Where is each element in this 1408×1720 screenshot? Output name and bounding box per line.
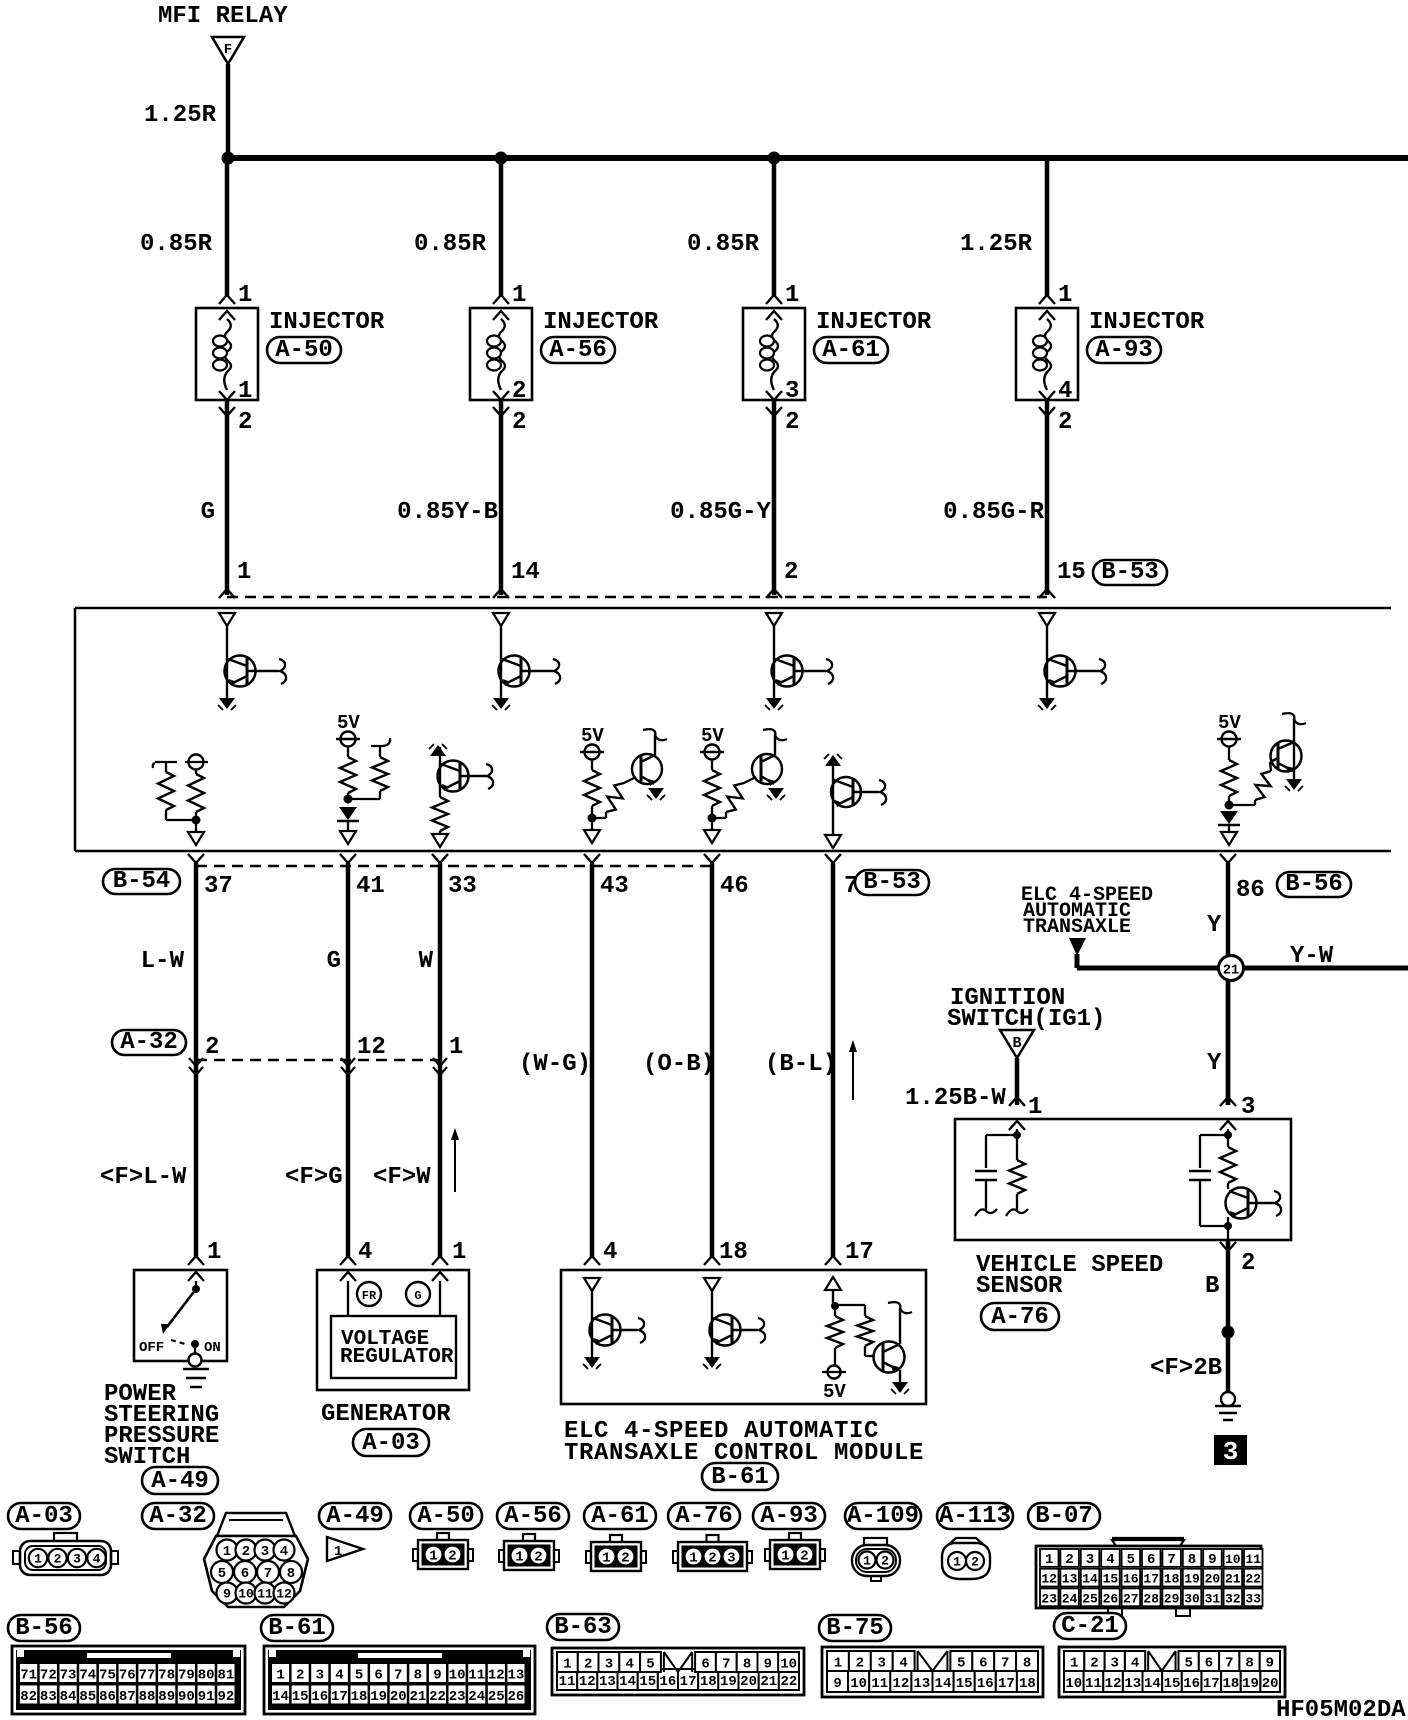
svg-text:12: 12 — [579, 1674, 596, 1690]
svg-text:73: 73 — [60, 1668, 77, 1684]
svg-text:GENERATOR: GENERATOR — [321, 1401, 451, 1428]
svg-text:10: 10 — [1225, 1552, 1241, 1567]
svg-text:2: 2 — [800, 1549, 808, 1565]
direction arrow beside wire W — [451, 1128, 459, 1192]
svg-text:43: 43 — [600, 873, 629, 900]
svg-text:78: 78 — [158, 1668, 175, 1684]
VSS internal capacitor, resistor and output transistor at pin 3 — [1189, 1129, 1281, 1240]
svg-text:74: 74 — [79, 1668, 96, 1684]
wire label Y-W — [1290, 943, 1334, 970]
svg-text:2: 2 — [621, 1551, 629, 1567]
svg-text:2: 2 — [1090, 1656, 1098, 1672]
svg-text:7: 7 — [1001, 1656, 1009, 1672]
wire 0.85G-R from injector A-93 to ECU pin 15 — [1045, 400, 1050, 595]
vehicle speed sensor pin 2 — [1220, 1242, 1255, 1277]
svg-text:12: 12 — [892, 1676, 909, 1692]
wire label 1.25B-W — [905, 1085, 1006, 1112]
svg-text:11: 11 — [468, 1668, 485, 1684]
svg-text:12: 12 — [1041, 1572, 1057, 1587]
connector A-113 pinout — [942, 1538, 990, 1579]
connector C-21 pinout — [1059, 1647, 1285, 1697]
svg-text:2: 2 — [512, 409, 526, 436]
ECU bottom pin 41 — [340, 854, 385, 900]
wire label <F>W — [373, 1164, 431, 1191]
svg-text:A-61: A-61 — [591, 1503, 649, 1530]
direction arrow beside wire (B-L) — [849, 1040, 857, 1100]
svg-text:12: 12 — [357, 1034, 386, 1061]
svg-text:8: 8 — [287, 1566, 295, 1582]
connector ref label C-21 (pinout) — [1054, 1613, 1126, 1640]
wire label W — [419, 948, 434, 975]
connector B-56 pinout — [12, 1646, 245, 1714]
svg-text:4: 4 — [335, 1668, 343, 1684]
svg-text:7: 7 — [264, 1566, 272, 1582]
connector ref label B-07 (pinout) — [1028, 1503, 1100, 1530]
injector label INJECTOR A-93 — [1089, 309, 1205, 336]
injector A-93 inner pin 4 — [1039, 378, 1072, 405]
svg-text:SENSOR: SENSOR — [976, 1273, 1063, 1300]
connector A-61 pinout — [586, 1535, 646, 1571]
svg-text:4: 4 — [93, 1552, 101, 1567]
svg-text:1: 1 — [334, 1544, 342, 1560]
connector A-32 pin 12 — [341, 1034, 386, 1075]
ECU internal transistor and resistor at pin 33 — [429, 744, 493, 847]
svg-text:86: 86 — [1236, 877, 1265, 904]
connector A-32 pin 1 — [433, 1034, 463, 1075]
generator pin 1 — [432, 1239, 466, 1266]
injector label INJECTOR A-61 — [816, 309, 932, 336]
svg-text:25: 25 — [488, 1689, 505, 1705]
connector A-109 pinout — [852, 1538, 900, 1581]
svg-text:28: 28 — [1143, 1591, 1159, 1606]
svg-text:15: 15 — [292, 1689, 309, 1705]
injector driver transistor Q3 (ECU internal) — [765, 613, 833, 710]
svg-text:20: 20 — [1262, 1676, 1279, 1692]
svg-text:11: 11 — [1245, 1552, 1261, 1567]
svg-text:19: 19 — [1242, 1676, 1259, 1692]
pin 1 of injector A-56 — [493, 282, 526, 309]
svg-text:Y: Y — [1207, 1050, 1222, 1077]
svg-text:4: 4 — [1131, 1656, 1139, 1672]
wire size label 0.85R — [414, 231, 487, 258]
svg-text:2: 2 — [238, 409, 252, 436]
wire L-W from pin 37 to power steering pressure switch — [194, 863, 199, 1257]
svg-text:4: 4 — [603, 1239, 617, 1266]
ECU bottom pin 37 — [188, 854, 233, 900]
pin 2 of injector A-61 — [766, 407, 799, 436]
svg-text:9: 9 — [1266, 1656, 1274, 1672]
connector B (ignition switch IG1 feed) triangle — [1000, 1030, 1034, 1058]
svg-text:1: 1 — [602, 1551, 610, 1567]
svg-text:5: 5 — [1127, 1552, 1135, 1568]
connector ref label A-50 — [267, 337, 341, 364]
wire label <F>2B — [1150, 1355, 1222, 1382]
svg-text:A-03: A-03 — [15, 1503, 73, 1530]
svg-text:10: 10 — [1065, 1676, 1082, 1692]
svg-text:21: 21 — [760, 1674, 777, 1690]
svg-text:11: 11 — [257, 1587, 273, 1602]
svg-text:4: 4 — [625, 1657, 633, 1673]
svg-text:82: 82 — [20, 1689, 37, 1705]
connector ref label A-93 — [1087, 337, 1161, 364]
svg-text:2: 2 — [512, 378, 526, 405]
connector ref label A-109 (pinout) — [845, 1503, 921, 1530]
svg-text:9: 9 — [833, 1676, 841, 1692]
connector A-49 pinout (single pin) — [327, 1537, 363, 1561]
svg-text:18: 18 — [1223, 1676, 1240, 1692]
svg-text:OFF: OFF — [139, 1340, 164, 1356]
svg-text:2: 2 — [881, 1554, 889, 1569]
svg-text:16: 16 — [977, 1676, 994, 1692]
wire G from injector A-50 to ECU pin 1 — [225, 400, 230, 595]
wire G from pin 41 to generator — [346, 863, 351, 1257]
label POWER STEERING PRESSURE SWITCH — [104, 1381, 219, 1471]
pin 1 of injector A-50 — [219, 282, 252, 309]
svg-text:5V: 5V — [701, 725, 724, 747]
svg-text:17: 17 — [1203, 1676, 1220, 1692]
svg-text:16: 16 — [660, 1674, 677, 1690]
svg-text:23: 23 — [449, 1689, 466, 1705]
svg-text:0.85R: 0.85R — [414, 231, 487, 258]
svg-text:21: 21 — [1223, 964, 1239, 979]
svg-text:<F>2B: <F>2B — [1150, 1355, 1222, 1382]
svg-text:A-03: A-03 — [362, 1430, 420, 1457]
connector B-53 dashed boundary line — [227, 596, 1047, 599]
ECU internal 5V comparator input at pin 43 — [580, 725, 667, 843]
wire label <F>G — [285, 1164, 343, 1191]
svg-text:5: 5 — [218, 1566, 226, 1582]
svg-text:15: 15 — [1103, 1572, 1119, 1587]
transaxle module input transistor at pin 4 — [583, 1278, 645, 1369]
svg-text:6: 6 — [979, 1656, 987, 1672]
svg-text:G: G — [414, 1289, 421, 1303]
vehicle speed sensor box — [955, 1119, 1291, 1240]
svg-text:1: 1 — [449, 1034, 463, 1061]
injector A-50 coil — [213, 319, 231, 390]
svg-text:85: 85 — [79, 1689, 96, 1705]
svg-text:2: 2 — [856, 1656, 864, 1672]
label IGNITION SWITCH(IG1) — [947, 985, 1105, 1033]
svg-text:14: 14 — [511, 559, 540, 586]
power bus wire — [226, 155, 1408, 161]
svg-text:3: 3 — [1111, 1656, 1119, 1672]
svg-text:6: 6 — [241, 1566, 249, 1582]
svg-text:9: 9 — [223, 1587, 231, 1602]
svg-text:A-109: A-109 — [847, 1503, 919, 1530]
switch contact (OFF/ON) inside power steering pressure switch — [139, 1281, 221, 1367]
svg-text:14: 14 — [935, 1676, 952, 1692]
svg-text:7: 7 — [394, 1668, 402, 1684]
svg-text:L-W: L-W — [141, 948, 185, 975]
svg-text:26: 26 — [1103, 1591, 1119, 1606]
svg-text:32: 32 — [1225, 1591, 1241, 1606]
svg-text:1: 1 — [781, 1549, 789, 1565]
svg-text:A-50: A-50 — [275, 337, 333, 364]
svg-text:12: 12 — [1105, 1676, 1122, 1692]
pin 1 of injector A-93 — [1039, 282, 1072, 309]
wire from transaxle arrow to node 21 — [1077, 954, 1220, 968]
svg-text:1: 1 — [238, 282, 252, 309]
svg-text:12: 12 — [488, 1668, 505, 1684]
connector B-75 pinout — [822, 1647, 1043, 1697]
svg-text:3: 3 — [316, 1668, 324, 1684]
svg-text:3: 3 — [261, 1544, 269, 1560]
generator FR terminal circle — [357, 1282, 381, 1306]
ECU pin 1 — [219, 559, 251, 598]
svg-text:3: 3 — [605, 1657, 613, 1673]
connector A-76 pinout — [673, 1535, 752, 1571]
wire (O-B) from pin 46 to transaxle control module — [710, 863, 715, 1257]
svg-text:1: 1 — [689, 1551, 697, 1567]
svg-text:13: 13 — [1062, 1572, 1078, 1587]
ground symbol of power steering pressure switch — [183, 1369, 209, 1387]
power steering pressure switch pin 1 — [188, 1239, 221, 1266]
svg-text:84: 84 — [60, 1689, 77, 1705]
svg-text:3: 3 — [727, 1551, 735, 1567]
connector ref label A-32 (inline) — [112, 1029, 186, 1056]
wire W from pin 33 to generator — [438, 863, 443, 1257]
svg-text:15: 15 — [639, 1674, 656, 1690]
svg-text:FR: FR — [362, 1289, 377, 1303]
svg-text:2: 2 — [584, 1657, 592, 1673]
svg-text:A-113: A-113 — [939, 1503, 1011, 1530]
svg-text:5V: 5V — [823, 1381, 846, 1403]
svg-text:3: 3 — [785, 378, 799, 405]
svg-text:20: 20 — [1205, 1572, 1221, 1587]
injector label INJECTOR A-56 — [543, 309, 659, 336]
svg-text:90: 90 — [178, 1689, 195, 1705]
svg-text:7: 7 — [722, 1657, 730, 1673]
wire from bus to injector A-93 pin 1 — [1045, 158, 1050, 296]
svg-text:21: 21 — [409, 1689, 426, 1705]
svg-text:1: 1 — [452, 1239, 466, 1266]
svg-text:4: 4 — [1106, 1552, 1114, 1568]
connector A-50 pinout — [413, 1533, 473, 1569]
svg-text:33: 33 — [1245, 1591, 1261, 1606]
wire from bus to injector A-50 pin 1 — [225, 158, 230, 296]
svg-text:2: 2 — [448, 1549, 456, 1565]
wire from bus to injector A-61 pin 1 — [772, 158, 777, 296]
generator box — [317, 1270, 469, 1390]
connector A-03 pinout — [13, 1533, 118, 1575]
svg-text:14: 14 — [1082, 1572, 1098, 1587]
svg-text:17: 17 — [1143, 1572, 1159, 1587]
ECU bottom pin 43 — [584, 854, 629, 900]
svg-text:F: F — [224, 42, 232, 58]
wire size label 0.85R — [140, 231, 213, 258]
vehicle speed sensor pin 3 — [1220, 1094, 1255, 1121]
wire label Y (upper) — [1207, 912, 1222, 939]
svg-text:2: 2 — [242, 1544, 250, 1560]
VSS internal filter capacitor and resistor at pin 1 — [975, 1129, 1028, 1216]
label ELC 4-SPEED AUTOMATIC TRANSAXLE (wire destination) — [1021, 884, 1153, 939]
svg-text:1: 1 — [563, 1657, 571, 1673]
svg-text:16: 16 — [1183, 1676, 1200, 1692]
svg-text:15: 15 — [1057, 559, 1086, 586]
engine control module box outline — [75, 608, 1391, 851]
svg-text:79: 79 — [178, 1668, 195, 1684]
svg-text:22: 22 — [781, 1674, 798, 1690]
transaxle module 5V circuit at pin 17 — [822, 1277, 912, 1403]
ground symbol at bottom of wire B — [1215, 1392, 1241, 1420]
svg-text:6: 6 — [374, 1668, 382, 1684]
svg-text:A-32: A-32 — [120, 1029, 178, 1056]
pin 1 of injector A-61 — [766, 282, 799, 309]
svg-text:9: 9 — [1208, 1552, 1216, 1568]
svg-text:INJECTOR: INJECTOR — [816, 309, 932, 336]
junction node on wire B — [1222, 1326, 1235, 1339]
svg-text:B-53: B-53 — [1101, 559, 1159, 586]
svg-text:46: 46 — [720, 873, 749, 900]
wire color label G — [201, 499, 215, 526]
junction node on bus at injector 2 — [495, 152, 508, 165]
connector ref label B-53 (bottom) — [855, 869, 929, 896]
svg-text:71: 71 — [20, 1668, 37, 1684]
svg-text:3: 3 — [1241, 1094, 1255, 1121]
ECU bottom pin 86 — [1220, 854, 1265, 904]
svg-text:1: 1 — [1070, 1656, 1078, 1672]
svg-text:A-50: A-50 — [417, 1503, 475, 1530]
connector ref label B-61 (pinout) — [261, 1615, 333, 1642]
svg-text:20: 20 — [740, 1674, 757, 1690]
connector ref label A-32 (pinout) — [142, 1503, 214, 1530]
svg-text:19: 19 — [720, 1674, 737, 1690]
svg-text:6: 6 — [701, 1657, 709, 1673]
wire label (B-L) — [765, 1051, 837, 1078]
connector A-93 pinout — [765, 1533, 825, 1569]
svg-text:1: 1 — [207, 1239, 221, 1266]
pin 2 of injector A-56 — [493, 407, 526, 436]
svg-text:8: 8 — [1023, 1656, 1031, 1672]
connector ref label B-56 (pinout) — [8, 1615, 80, 1642]
ECU internal 5V reference with resistor and zener diode at pin 41 — [336, 712, 390, 844]
connector ref label B-75 (pinout) — [819, 1615, 891, 1642]
injector label INJECTOR A-50 — [269, 309, 385, 336]
svg-text:7: 7 — [1225, 1656, 1233, 1672]
svg-text:10: 10 — [449, 1668, 466, 1684]
transaxle control module box — [561, 1270, 926, 1404]
transaxle control module pin 18 — [704, 1239, 748, 1266]
svg-text:A-56: A-56 — [504, 1503, 562, 1530]
svg-text:9: 9 — [433, 1668, 441, 1684]
connector ref label B-56 (pin 86) — [1277, 871, 1351, 898]
svg-text:88: 88 — [139, 1689, 156, 1705]
svg-text:12: 12 — [276, 1587, 292, 1602]
connector ref label A-50 (pinout) — [410, 1503, 482, 1530]
arrow to ELC 4-speed automatic transaxle — [1069, 938, 1086, 956]
drawing number HF05M02DA — [1276, 1697, 1406, 1720]
svg-text:HF05M02DA: HF05M02DA — [1276, 1697, 1406, 1720]
injector A-61 inner pin 3 — [766, 378, 799, 405]
injector driver transistor Q4 (ECU internal) — [1038, 613, 1106, 710]
svg-text:14: 14 — [619, 1674, 636, 1690]
svg-text:24: 24 — [468, 1689, 485, 1705]
svg-text:2: 2 — [784, 559, 798, 586]
svg-text:1: 1 — [953, 1555, 961, 1570]
svg-text:1: 1 — [512, 282, 526, 309]
svg-text:<F>L-W: <F>L-W — [100, 1164, 187, 1191]
svg-text:(O-B): (O-B) — [643, 1051, 715, 1078]
svg-text:4: 4 — [899, 1656, 907, 1672]
svg-text:13: 13 — [599, 1674, 616, 1690]
svg-text:1: 1 — [276, 1668, 284, 1684]
svg-text:1: 1 — [863, 1554, 871, 1569]
svg-text:23: 23 — [1041, 1591, 1057, 1606]
ECU internal transistor at pin 7 — [824, 754, 886, 848]
wire label (O-B) — [643, 1051, 715, 1078]
svg-text:2: 2 — [1058, 409, 1072, 436]
svg-text:INJECTOR: INJECTOR — [1089, 309, 1205, 336]
svg-text:27: 27 — [1123, 1591, 1139, 1606]
wire color label 0.85G-Y — [670, 499, 771, 526]
svg-text:5: 5 — [957, 1656, 965, 1672]
connector ref label A-56 (pinout) — [497, 1503, 569, 1530]
svg-text:A-76: A-76 — [675, 1503, 733, 1530]
svg-text:0.85Y-B: 0.85Y-B — [397, 499, 498, 526]
svg-text:1.25R: 1.25R — [144, 102, 217, 129]
voltage regulator box inside generator — [331, 1316, 456, 1378]
wires from generator pins to voltage regulator — [348, 1281, 440, 1316]
svg-text:1: 1 — [237, 559, 251, 586]
generator pin 4 — [340, 1239, 372, 1266]
svg-text:A-93: A-93 — [1095, 337, 1153, 364]
svg-text:(W-G): (W-G) — [519, 1051, 591, 1078]
svg-text:<F>W: <F>W — [373, 1164, 431, 1191]
connector B-07 pinout — [1036, 1538, 1263, 1616]
svg-text:11: 11 — [559, 1674, 576, 1690]
junction node on bus at injector 3 — [768, 152, 781, 165]
svg-text:B: B — [1205, 1273, 1219, 1300]
svg-text:81: 81 — [217, 1668, 234, 1684]
svg-text:2: 2 — [54, 1552, 62, 1567]
ECU bottom pin 33 — [432, 854, 477, 900]
wire size label 0.85R — [687, 231, 760, 258]
transaxle control module pin 4 — [584, 1239, 617, 1266]
svg-text:A-76: A-76 — [991, 1304, 1049, 1331]
svg-text:W: W — [419, 948, 434, 975]
svg-text:19: 19 — [1184, 1572, 1200, 1587]
svg-text:(B-L): (B-L) — [765, 1051, 837, 1078]
svg-text:B: B — [1012, 1035, 1021, 1052]
injector driver transistor Q1 (ECU internal) — [218, 613, 286, 710]
label GENERATOR — [321, 1401, 451, 1428]
wire label <F>L-W — [100, 1164, 187, 1191]
wire from bus to injector A-56 pin 1 — [499, 158, 504, 296]
connector ref label A-56 — [541, 337, 615, 364]
svg-text:5: 5 — [1184, 1656, 1192, 1672]
svg-text:25: 25 — [1082, 1591, 1098, 1606]
svg-text:41: 41 — [356, 873, 385, 900]
connector ref label A-76 (pinout) — [668, 1503, 740, 1530]
wire Y-W from node 21 to right edge — [1242, 966, 1408, 971]
svg-text:4: 4 — [1058, 378, 1072, 405]
svg-text:A-49: A-49 — [151, 1468, 209, 1495]
svg-text:3: 3 — [73, 1552, 81, 1567]
transaxle module input transistor at pin 18 — [703, 1278, 765, 1369]
svg-text:15: 15 — [956, 1676, 973, 1692]
svg-text:1.25B-W: 1.25B-W — [905, 1085, 1006, 1112]
connector F (MFI relay feed) triangle — [212, 37, 244, 64]
wire B from VSS pin 2 to ground — [1226, 1240, 1231, 1393]
connector ref label A-49 (pinout) — [319, 1503, 391, 1530]
svg-text:1: 1 — [1028, 1094, 1042, 1121]
svg-text:1: 1 — [238, 378, 252, 405]
connector ref label A-49 (component) — [142, 1467, 218, 1495]
svg-text:18: 18 — [1164, 1572, 1180, 1587]
wire 1.25B-W from ignition switch to VSS pin 1 — [1015, 1058, 1020, 1105]
wire label L-W — [141, 948, 185, 975]
svg-text:10: 10 — [780, 1657, 797, 1673]
